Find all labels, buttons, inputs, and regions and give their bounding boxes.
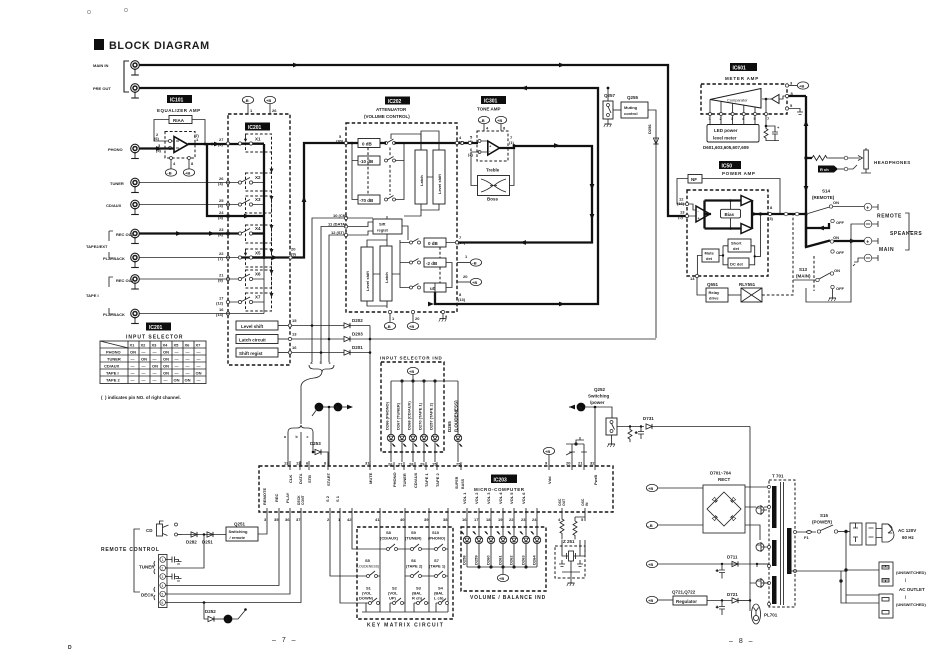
svg-text:—: —: [186, 364, 190, 369]
svg-text:X4: X4: [255, 226, 261, 231]
svg-text:(2): (2): [218, 142, 224, 147]
svg-text:–B: –B: [244, 98, 249, 103]
S2 switch: [388, 586, 405, 613]
svg-text:Q255: Q255: [627, 95, 639, 100]
svg-text:36: 36: [285, 517, 290, 522]
S14 remote OFF contact: [831, 219, 845, 225]
matrix feed wires: [330, 517, 448, 612]
serial control verticals: [311, 218, 345, 362]
heavy bus X1 down: [263, 144, 265, 258]
+B oval ps4: [646, 596, 673, 603]
S10 switch: [428, 530, 448, 551]
svg-text:PLAYBACK: PLAYBACK: [103, 312, 125, 317]
svg-text:X5: X5: [255, 251, 261, 256]
svg-text:37: 37: [296, 517, 301, 522]
sw contacts u0: [410, 284, 421, 290]
svg-text:14: 14: [690, 276, 695, 281]
svg-text:TAPE 2: TAPE 2: [106, 378, 120, 383]
R ch tag: [818, 165, 857, 173]
relay dashed to S13: [762, 213, 793, 295]
registration marks: [87, 10, 90, 13]
svg-text:+: +: [489, 144, 491, 148]
bridge out wires: [745, 487, 768, 540]
svg-text:PLAYBACK: PLAYBACK: [103, 256, 125, 261]
speaker remote plus: [864, 203, 878, 211]
svg-text:29: 29: [420, 462, 425, 467]
svg-text:16: 16: [462, 517, 467, 522]
top pin numbers: [284, 461, 595, 467]
svg-text:L ch): L ch): [434, 596, 444, 601]
S3 switch: [412, 586, 429, 613]
svg-text:3: 3: [162, 575, 164, 579]
PL701 lamp: [752, 604, 778, 624]
LED D257: [429, 381, 440, 462]
diode D203: [292, 332, 371, 342]
svg-text:X1: X1: [130, 343, 136, 348]
svg-text:Short: Short: [731, 241, 742, 246]
svg-text:(16): (16): [677, 201, 685, 206]
ind bus: [391, 380, 458, 382]
svg-text:(12): (12): [216, 301, 224, 306]
core lines: [781, 482, 784, 605]
wire X2 X3 X6 X7 to bus: [253, 183, 265, 314]
vb bus: [467, 566, 537, 574]
term3 cap: [166, 574, 182, 582]
svg-text:IN: IN: [585, 502, 589, 506]
svg-text:b: b: [320, 361, 322, 365]
IC50 dashed box: [687, 190, 768, 276]
Z251 dashed box: [555, 546, 585, 578]
svg-text:35: 35: [274, 517, 279, 522]
svg-text:(30): (30): [336, 139, 344, 144]
dashed att select: [368, 148, 390, 196]
PLAYBACK tape2 connector: [103, 253, 139, 267]
svg-text:REMOTE CONTROL: REMOTE CONTROL: [101, 547, 160, 553]
sift regist box: [373, 219, 402, 234]
svg-text:—: —: [131, 357, 135, 362]
attenuator -10dB box: [358, 156, 380, 165]
key matrix dashed box: [357, 527, 453, 619]
sw contacts -70dB: [385, 196, 396, 202]
IC201 supply -B oval: [242, 96, 253, 114]
svg-text:(7): (7): [194, 133, 200, 138]
svg-text:OUT: OUT: [562, 498, 566, 506]
relay RLY551: [728, 282, 762, 302]
svg-text:ON: ON: [185, 378, 191, 383]
svg-text:4: 4: [162, 584, 164, 588]
heavy to main on: [806, 228, 864, 247]
svg-text:(5): (5): [678, 215, 684, 220]
svg-text:VOL 5: VOL 5: [509, 492, 514, 504]
S14 remote ON contact: [808, 200, 864, 214]
plug terminal blocks: [850, 523, 876, 545]
svg-text:X7: X7: [255, 295, 261, 300]
CD jack: [146, 521, 182, 536]
IC50 tag: [719, 161, 741, 170]
svg-text:EQUALIZER AMP: EQUALIZER AMP: [157, 108, 201, 113]
svg-text:+B: +B: [545, 449, 550, 454]
pin 17: [216, 296, 230, 306]
svg-text:Treble: Treble: [486, 168, 500, 173]
svg-text:–B: –B: [167, 171, 172, 176]
svg-text:ON: ON: [163, 371, 169, 376]
svg-text:RLY551: RLY551: [739, 282, 756, 287]
switch X2: [238, 173, 271, 191]
speakers labels: [877, 214, 922, 254]
diode D731: [643, 416, 750, 429]
wires sift pins: [348, 216, 409, 240]
svg-text:60 Hz: 60 Hz: [902, 535, 915, 540]
svg-text:+B: +B: [648, 562, 653, 567]
svg-text:LED power: LED power: [714, 128, 738, 133]
svg-text:F1: F1: [804, 535, 809, 540]
svg-text:X4: X4: [163, 343, 169, 348]
svg-text:26: 26: [388, 462, 393, 467]
svg-text:TAPE 1: TAPE 1: [424, 473, 429, 487]
det wires: [697, 215, 760, 276]
input selector table: [100, 341, 206, 384]
svg-text:X3: X3: [152, 343, 158, 348]
svg-text:D257 (TAPE 2): D257 (TAPE 2): [429, 402, 434, 430]
svg-text:(3): (3): [768, 216, 774, 221]
wire tuner to X2: [140, 182, 239, 184]
bias cap: [635, 427, 644, 440]
svg-text:(3): (3): [218, 181, 224, 186]
tap transistor sym3: [756, 578, 767, 588]
svg-text:(CD/AUX): (CD/AUX): [380, 536, 399, 541]
svg-text:D267 (TUNER): D267 (TUNER): [396, 402, 401, 430]
node A3: [224, 608, 247, 623]
svg-text:drive: drive: [709, 296, 719, 301]
svg-text:CD/AUX: CD/AUX: [413, 472, 418, 488]
svg-text:Mute: Mute: [705, 251, 715, 256]
svg-text:Bias: Bias: [725, 212, 735, 217]
LED D266: [385, 381, 396, 462]
abc stems to IC203: [288, 432, 313, 466]
dc det box: [728, 258, 749, 268]
svg-text:S8: S8: [386, 530, 392, 535]
primary windings: [772, 486, 777, 604]
D721: [707, 592, 750, 603]
svg-text:NF: NF: [691, 177, 697, 182]
D711: [721, 555, 758, 567]
svg-text:Boss: Boss: [487, 197, 499, 202]
svg-text:+B: +B: [266, 98, 271, 103]
comparator: [710, 89, 761, 109]
svg-text:OFF: OFF: [836, 286, 845, 291]
svg-text:ON: ON: [152, 364, 158, 369]
svg-text:+: +: [698, 217, 700, 221]
node A2: [312, 403, 323, 416]
pin 16b: [278, 345, 297, 354]
svg-text:(MAIN): (MAIN): [796, 274, 811, 279]
q252 label: [588, 387, 610, 405]
svg-text:TAPE 2: TAPE 2: [435, 473, 440, 487]
+B supply oval eq: [183, 169, 194, 176]
svg-text:AC 120V: AC 120V: [898, 528, 916, 533]
svg-text:PwrB: PwrB: [593, 475, 598, 485]
svg-text:det: det: [706, 256, 713, 261]
svg-text:S9: S9: [411, 530, 417, 535]
svg-text:TAPE I: TAPE I: [86, 293, 99, 298]
Q251 box: [226, 522, 258, 542]
svg-text:(6): (6): [154, 136, 160, 141]
LED D265 loudness: [447, 381, 462, 462]
svg-text:IC203: IC203: [494, 478, 508, 484]
svg-text:a: a: [311, 361, 313, 365]
svg-text:DATA: DATA: [298, 473, 303, 484]
bracket abc bottom: [284, 425, 313, 439]
svg-text:TAPE I: TAPE I: [106, 371, 119, 376]
svg-text:PLAY: PLAY: [285, 492, 290, 503]
PA op-amp: [689, 204, 711, 222]
svg-text:12 (ST): 12 (ST): [331, 230, 345, 235]
svg-text:—: —: [142, 364, 146, 369]
svg-text:—: —: [175, 350, 179, 355]
svg-text:Latch circuit: Latch circuit: [239, 337, 266, 342]
IC301 dashed box: [477, 131, 508, 161]
svg-text:BLOCK DIAGRAM: BLOCK DIAGRAM: [109, 40, 210, 52]
svg-text:PHONO: PHONO: [108, 147, 123, 152]
+B oval ps3: [646, 560, 769, 567]
svg-text:S10: S10: [432, 530, 440, 535]
svg-text:IC601: IC601: [733, 66, 747, 72]
bridge rectifier D701-704: [703, 485, 745, 533]
-B oval bottom: [384, 322, 395, 329]
PA inner wires: [705, 199, 769, 230]
LED power level meter box: [707, 125, 759, 143]
IC203 bottom pin row: [267, 508, 585, 517]
svg-text:R ch): R ch): [412, 596, 423, 601]
wire op-amp out to X1: [188, 142, 240, 147]
svg-text:AC OUTLET: AC OUTLET: [899, 587, 925, 592]
svg-text:+B: +B: [472, 280, 477, 285]
svg-text:19: 19: [498, 517, 503, 522]
S14 main OFF: [831, 250, 845, 255]
+B oval meter: [789, 82, 809, 89]
svg-text:KEY MATRIX CIRCUIT: KEY MATRIX CIRCUIT: [367, 623, 444, 629]
latch box vert: [415, 150, 427, 204]
secondary winding: [787, 528, 792, 574]
svg-text:IC201: IC201: [248, 125, 262, 131]
IC201 tag table: [146, 323, 171, 332]
speakers bracket: [905, 213, 913, 250]
svg-text:D: D: [68, 645, 72, 651]
svg-text:D253: D253: [310, 441, 321, 446]
IC301 tag: [481, 96, 506, 105]
svg-text:VOL 3: VOL 3: [486, 492, 491, 504]
svg-text:—: —: [175, 357, 179, 362]
S5 switch: [356, 558, 380, 578]
svg-text:OFF: OFF: [836, 250, 845, 255]
pin 5 input: [336, 134, 348, 145]
speaker main plus: [864, 237, 878, 245]
svg-text:27: 27: [398, 462, 403, 467]
svg-text:(VOLUME CONTROL): (VOLUME CONTROL): [364, 114, 410, 119]
bias resistor: [628, 427, 632, 443]
svg-text:PRE OUT: PRE OUT: [93, 86, 111, 91]
switch X6: [238, 270, 271, 288]
buffer triangle: [762, 95, 786, 104]
svg-text:TAPE2/EXT: TAPE2/EXT: [86, 244, 108, 249]
svg-text:ON: ON: [141, 357, 147, 362]
svg-text:VOL 6: VOL 6: [521, 492, 526, 504]
svg-text:(LOUDENESS): (LOUDENESS): [454, 400, 459, 432]
svg-text:D268 (CD/AUX): D268 (CD/AUX): [407, 401, 412, 430]
bottom pin rotated labels: [262, 488, 589, 506]
svg-text:D263: D263: [521, 555, 526, 565]
svg-text:—: —: [197, 350, 201, 355]
output tri up: [741, 196, 752, 206]
osc caps top: [566, 437, 587, 455]
S1 switch: [359, 586, 380, 613]
svg-text:/power: /power: [590, 400, 605, 405]
svg-text:TUNER: TUNER: [139, 565, 155, 570]
pin 22: [218, 251, 230, 261]
latch2 box: [380, 246, 392, 301]
svg-text:Latch: Latch: [419, 175, 424, 186]
svg-text:(POWER): (POWER): [812, 520, 832, 525]
svg-text:START: START: [326, 472, 331, 486]
minus return wires: [806, 224, 864, 302]
input selector ind dashed box: [381, 362, 444, 452]
pin 11 data: [328, 222, 348, 229]
output tri dn: [741, 224, 752, 234]
term5 wire: [166, 517, 291, 594]
+B oval bottom: [407, 310, 420, 329]
PLAYBACK tape1 connector: [103, 309, 139, 323]
PHONO connector: [108, 144, 139, 158]
-B oval tone: [478, 116, 489, 131]
svg-text:/ remote: / remote: [230, 535, 246, 540]
gnd main minus: [853, 262, 858, 266]
svg-text:S 1: S 1: [335, 495, 340, 502]
pin 12 st: [331, 230, 348, 237]
LED D260: [485, 517, 495, 567]
svg-text:—: —: [197, 364, 201, 369]
svg-text:IC201: IC201: [149, 325, 163, 331]
svg-text:MUTE: MUTE: [368, 472, 373, 484]
svg-text:IC202: IC202: [388, 99, 402, 105]
sw contacts 0dB2: [410, 239, 421, 245]
svg-text:Switching: Switching: [588, 394, 610, 399]
NF wires: [677, 179, 780, 214]
svg-text:20: 20: [415, 316, 420, 321]
svg-text:DOWN): DOWN): [359, 596, 374, 601]
diode D202: [292, 318, 371, 328]
Q255 muting control: [613, 95, 648, 118]
meter cap: [766, 125, 780, 141]
heavy rec feed: [207, 144, 264, 218]
switch X1: [238, 134, 271, 152]
svg-text:—: —: [142, 350, 146, 355]
IC601 tag: [730, 63, 757, 72]
svg-text:—: —: [153, 378, 157, 383]
switch X5: [238, 249, 271, 267]
bypass top wire: [352, 134, 421, 200]
svg-text:REMOTE: REMOTE: [262, 488, 267, 505]
svg-text:2: 2: [162, 566, 164, 570]
bracket abc top: [309, 361, 334, 372]
S15 switch: [817, 525, 850, 533]
treble boss box: [478, 176, 510, 196]
diode D201: [292, 345, 371, 355]
TUNER connector: [110, 178, 139, 192]
svg-text:+: +: [866, 205, 869, 211]
node B2: [324, 403, 354, 466]
svg-text:DC det: DC det: [730, 262, 744, 267]
NF box: [688, 175, 702, 184]
svg-text:0 dB: 0 dB: [428, 241, 439, 246]
pin 13: [278, 332, 297, 341]
S13 dashed: [813, 256, 815, 291]
outlet block 1: [879, 562, 893, 586]
svg-text:D259: D259: [474, 555, 479, 565]
top pin rotated labels: [288, 472, 598, 489]
rect label: [710, 471, 731, 483]
comparator bottom pins: [709, 99, 768, 116]
svg-text:Regulator: Regulator: [676, 599, 697, 604]
title block: [94, 39, 210, 52]
svg-text:TUNER: TUNER: [110, 181, 124, 186]
svg-text:+B: +B: [648, 486, 653, 491]
tone loop wires: [471, 146, 514, 186]
bracket main/pre: [124, 61, 129, 92]
svg-text:15: 15: [292, 318, 297, 323]
wire rec out heavy to connector: [140, 231, 239, 236]
headphone resistor: [806, 156, 848, 161]
svg-text:(UNSWITCHED): (UNSWITCHED): [896, 570, 926, 575]
pin 23: [218, 227, 230, 237]
svg-text:MAIN: MAIN: [879, 247, 894, 253]
pin 9 gnd: [439, 310, 448, 321]
outlet labels: [896, 570, 926, 607]
svg-text:S14: S14: [822, 189, 831, 194]
transformer taps: [768, 486, 797, 606]
svg-text:regist: regist: [377, 228, 389, 233]
meter pins right: [785, 81, 793, 111]
svg-text:—: —: [131, 378, 135, 383]
level shift box vert: [433, 150, 445, 204]
svg-text:Vdd: Vdd: [547, 476, 552, 484]
-B oval ps2: [646, 521, 703, 528]
attenuator -70dB box: [358, 195, 380, 204]
svg-text:INPUT SELECTOR: INPUT SELECTOR: [126, 335, 184, 341]
svg-text:+B: +B: [409, 369, 414, 374]
mute line to IC203: [369, 326, 372, 467]
switch X4: [238, 225, 271, 243]
svg-text:D711: D711: [727, 555, 738, 560]
svg-text:(TAPE 1): (TAPE 1): [429, 564, 446, 569]
svg-text:MICRO-COMPUTER: MICRO-COMPUTER: [474, 487, 525, 492]
svg-text:RIAA: RIAA: [173, 118, 185, 123]
svg-text:IC301: IC301: [484, 99, 498, 105]
heavy selector output: [253, 143, 359, 302]
LED D261: [497, 517, 507, 567]
heavy loop arrow2: [520, 240, 526, 245]
sw contacts -2dB: [410, 259, 421, 265]
heavy tone out: [459, 143, 595, 242]
svg-text:+B: +B: [648, 598, 653, 603]
-2dB box: [424, 258, 446, 267]
svg-text:32: 32: [590, 461, 595, 466]
svg-text:REMOTE: REMOTE: [877, 214, 902, 220]
+B oval right: [457, 274, 482, 286]
svg-text:5: 5: [162, 592, 164, 596]
IC601 dashed box: [701, 84, 787, 114]
pin 7 in: [455, 235, 465, 245]
svg-text:+B: +B: [499, 576, 504, 581]
